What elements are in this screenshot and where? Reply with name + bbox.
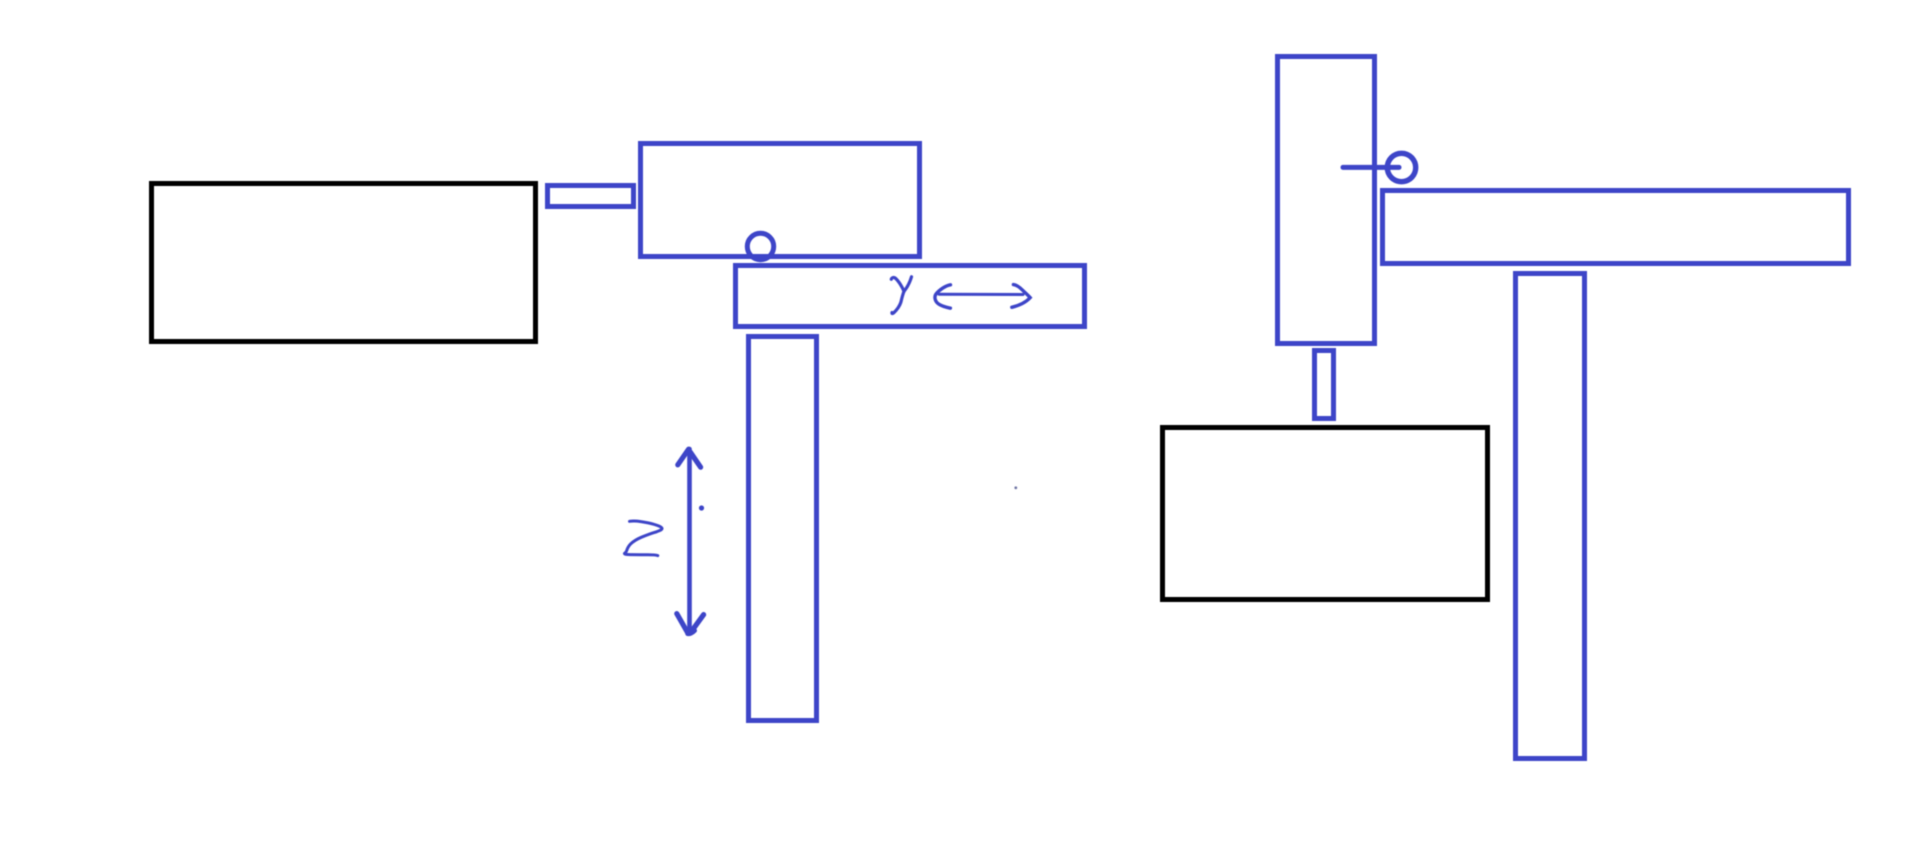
z-axis column (left tall vertical bar) xyxy=(749,337,817,721)
z double arrow shaft xyxy=(687,449,692,634)
small dot left of z arrow xyxy=(699,505,704,510)
right vertical column xyxy=(1516,274,1585,759)
right machine: vertical spindle head (tall blue rectangle) xyxy=(1278,57,1375,344)
tiny faint dot right of y bar xyxy=(1014,486,1017,489)
small vertical connector under tall rectangle xyxy=(1315,351,1334,419)
y double arrow shaft xyxy=(939,293,1023,296)
label Z xyxy=(624,521,662,556)
pin line into circle xyxy=(1343,165,1399,170)
y-axis slide bar (horizontal blue bar) xyxy=(736,266,1085,327)
roller circle under spindle head xyxy=(747,233,773,259)
spindle head (big blue rectangle) xyxy=(641,144,920,257)
base block (black rectangle, right machine) xyxy=(1163,428,1488,600)
z arrow top head xyxy=(678,449,689,465)
right horizontal slide bar xyxy=(1383,191,1849,264)
label y xyxy=(891,277,904,291)
y arrow left head xyxy=(935,285,951,308)
connector bar between base and spindle head xyxy=(548,186,634,207)
base block (black rectangle, left machine) xyxy=(152,184,536,342)
y arrow right head xyxy=(1012,285,1030,308)
pin circle xyxy=(1387,153,1415,181)
z arrow bottom head xyxy=(677,614,688,633)
